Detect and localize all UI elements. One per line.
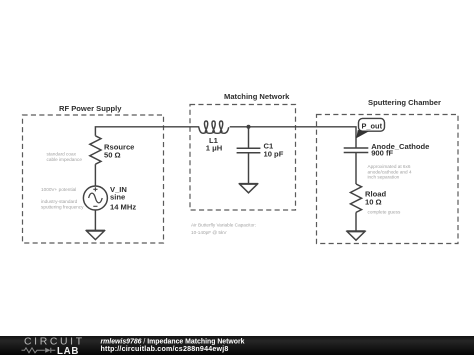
svg-text:LAB: LAB bbox=[57, 346, 79, 355]
svg-text:standard coax: standard coax bbox=[47, 151, 77, 156]
svg-text:14 MHz: 14 MHz bbox=[110, 203, 136, 212]
svg-text:cable impedance: cable impedance bbox=[47, 157, 83, 162]
svg-text:Sputtering Chamber: Sputtering Chamber bbox=[368, 98, 441, 107]
svg-text:http://circuitlab.com/cs288n94: http://circuitlab.com/cs288n944ewj8 bbox=[101, 345, 229, 353]
svg-text:10 Ω: 10 Ω bbox=[365, 198, 382, 207]
svg-text:1000V+ potential: 1000V+ potential bbox=[41, 187, 76, 192]
svg-text:1 μH: 1 μH bbox=[206, 144, 222, 153]
svg-text:Air Butterfly Variable Capacit: Air Butterfly Variable Capacitor: bbox=[191, 223, 256, 228]
svg-text:complete guess: complete guess bbox=[368, 210, 401, 215]
svg-text:industry-standard: industry-standard bbox=[41, 199, 78, 204]
svg-text:sputtering frequency: sputtering frequency bbox=[41, 205, 84, 210]
svg-text:Matching Network: Matching Network bbox=[224, 92, 290, 101]
svg-text:50 Ω: 50 Ω bbox=[104, 151, 121, 160]
svg-text:P_out: P_out bbox=[362, 122, 383, 131]
svg-text:RF Power Supply: RF Power Supply bbox=[59, 104, 122, 113]
svg-text:10-140pF @ 5kV: 10-140pF @ 5kV bbox=[191, 230, 227, 235]
svg-text:sine: sine bbox=[110, 193, 125, 202]
svg-text:10 pF: 10 pF bbox=[264, 149, 284, 158]
svg-text:inch separation: inch separation bbox=[368, 175, 400, 180]
svg-text:900 fF: 900 fF bbox=[371, 149, 393, 158]
